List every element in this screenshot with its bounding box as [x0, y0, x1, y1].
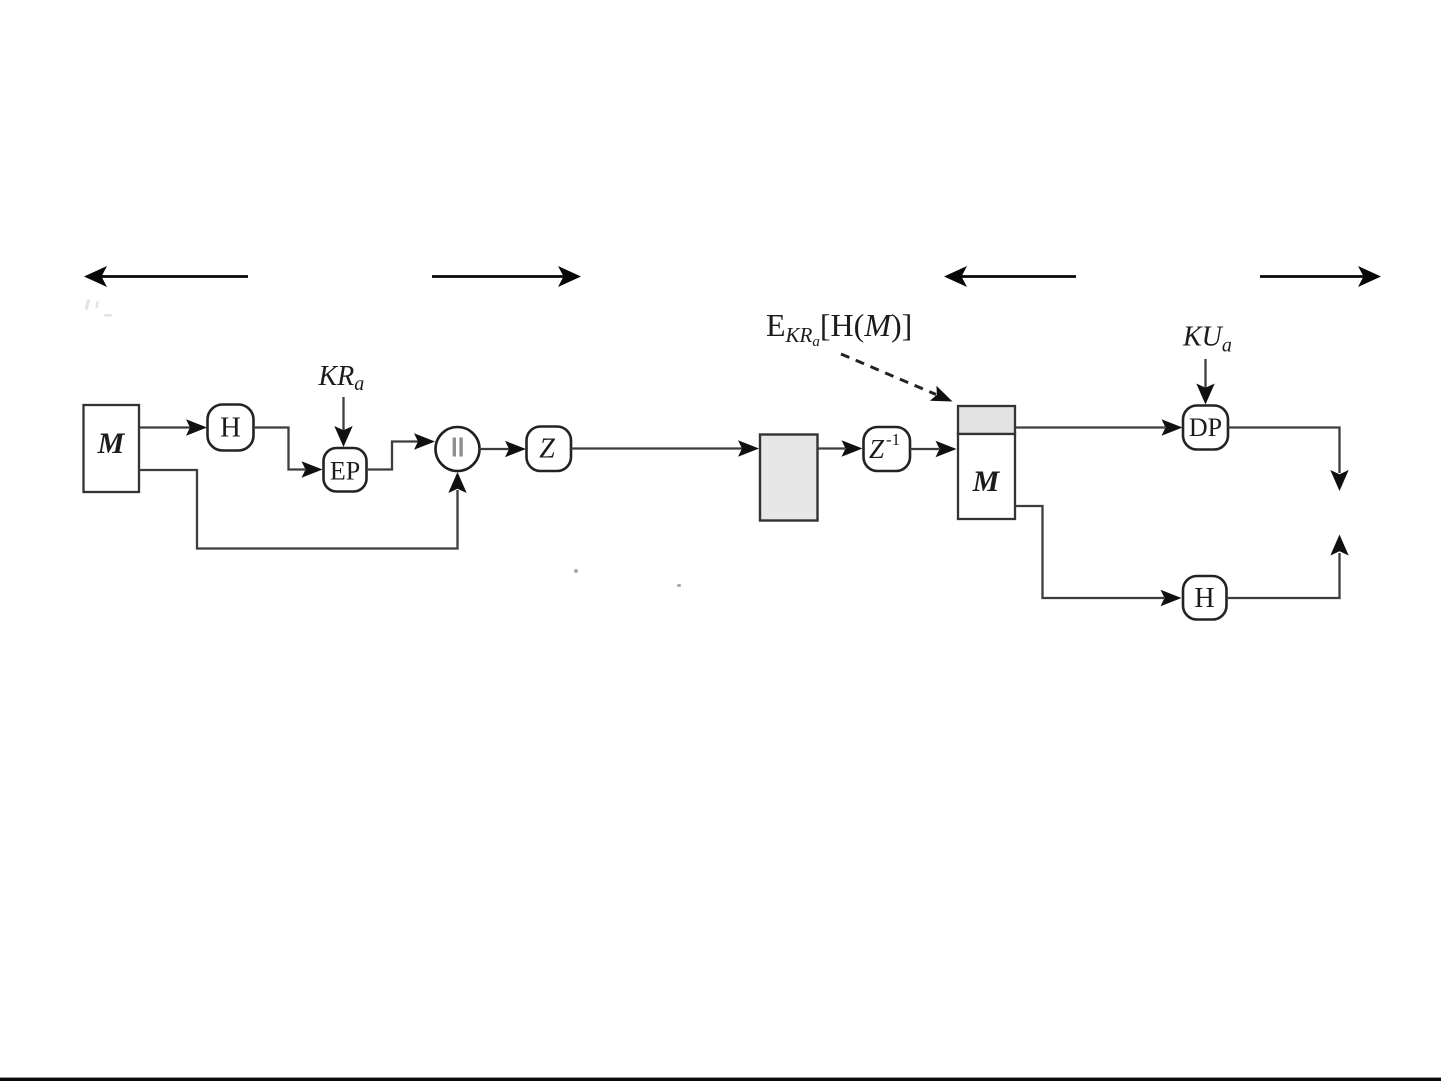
wire Z inverse to received M stack [910, 441, 957, 457]
wire M to H [140, 419, 208, 435]
arrow KUa into DP [1196, 359, 1214, 405]
hash function H (sender) [208, 405, 254, 451]
concatenation node || [436, 427, 480, 471]
bottom page rule [0, 1078, 1441, 1081]
decompression Z^-1 [864, 427, 911, 471]
svg-text:H: H [220, 412, 241, 444]
faint smudge below left span arrow [85, 299, 112, 317]
wire H to EP [254, 428, 323, 478]
long wire Z to transmitted block [571, 440, 759, 456]
feedback wire M to concatenation [140, 470, 467, 549]
arrow KRa into EP [334, 397, 352, 447]
wire H up to compare [1227, 535, 1349, 599]
svg-text:H: H [1194, 583, 1214, 614]
svg-text:-1: -1 [886, 430, 900, 449]
label E KRa [H(M)] [766, 307, 912, 350]
wire signature segment to DP [1015, 419, 1183, 435]
block M (source message) [84, 405, 140, 492]
svg-text:KRa: KRa [318, 361, 365, 395]
span arrow right (top far right) [1260, 266, 1381, 287]
span arrow right (top mid-left) [432, 266, 581, 287]
hash function H (receiver) [1183, 576, 1227, 620]
span arrow left (top far left) [84, 266, 248, 287]
svg-text:M: M [97, 427, 126, 460]
received stack: signature segment (shaded) [958, 406, 1015, 434]
transmitted (shaded) block [760, 435, 818, 521]
label KUa (public key) [1182, 322, 1232, 357]
wire concatenation to Z [480, 441, 527, 457]
wire transmitted block to Z inverse [818, 440, 863, 456]
received stack: message M segment [958, 434, 1015, 519]
wire DP down to compare [1228, 428, 1349, 492]
svg-text:Z: Z [539, 434, 555, 465]
svg-text:EP: EP [330, 457, 360, 486]
stray speck dots [574, 569, 681, 587]
svg-text:EKRa[H(M)]: EKRa[H(M)] [766, 307, 912, 350]
svg-text:KUa: KUa [1182, 322, 1232, 357]
public-key encryption EP [324, 448, 367, 492]
wire EP to concatenation [367, 433, 436, 469]
wire received M to H (receiver) [1015, 506, 1182, 606]
public-key decryption DP [1183, 406, 1228, 450]
label KRa (private key) [318, 361, 365, 395]
compression Z [527, 427, 572, 472]
svg-text:DP: DP [1189, 413, 1222, 442]
svg-text:Z: Z [869, 434, 885, 464]
dashed pointer from label to signature segment [841, 354, 956, 409]
span arrow left (top mid-right) [944, 266, 1076, 287]
svg-text:M: M [972, 465, 1001, 498]
